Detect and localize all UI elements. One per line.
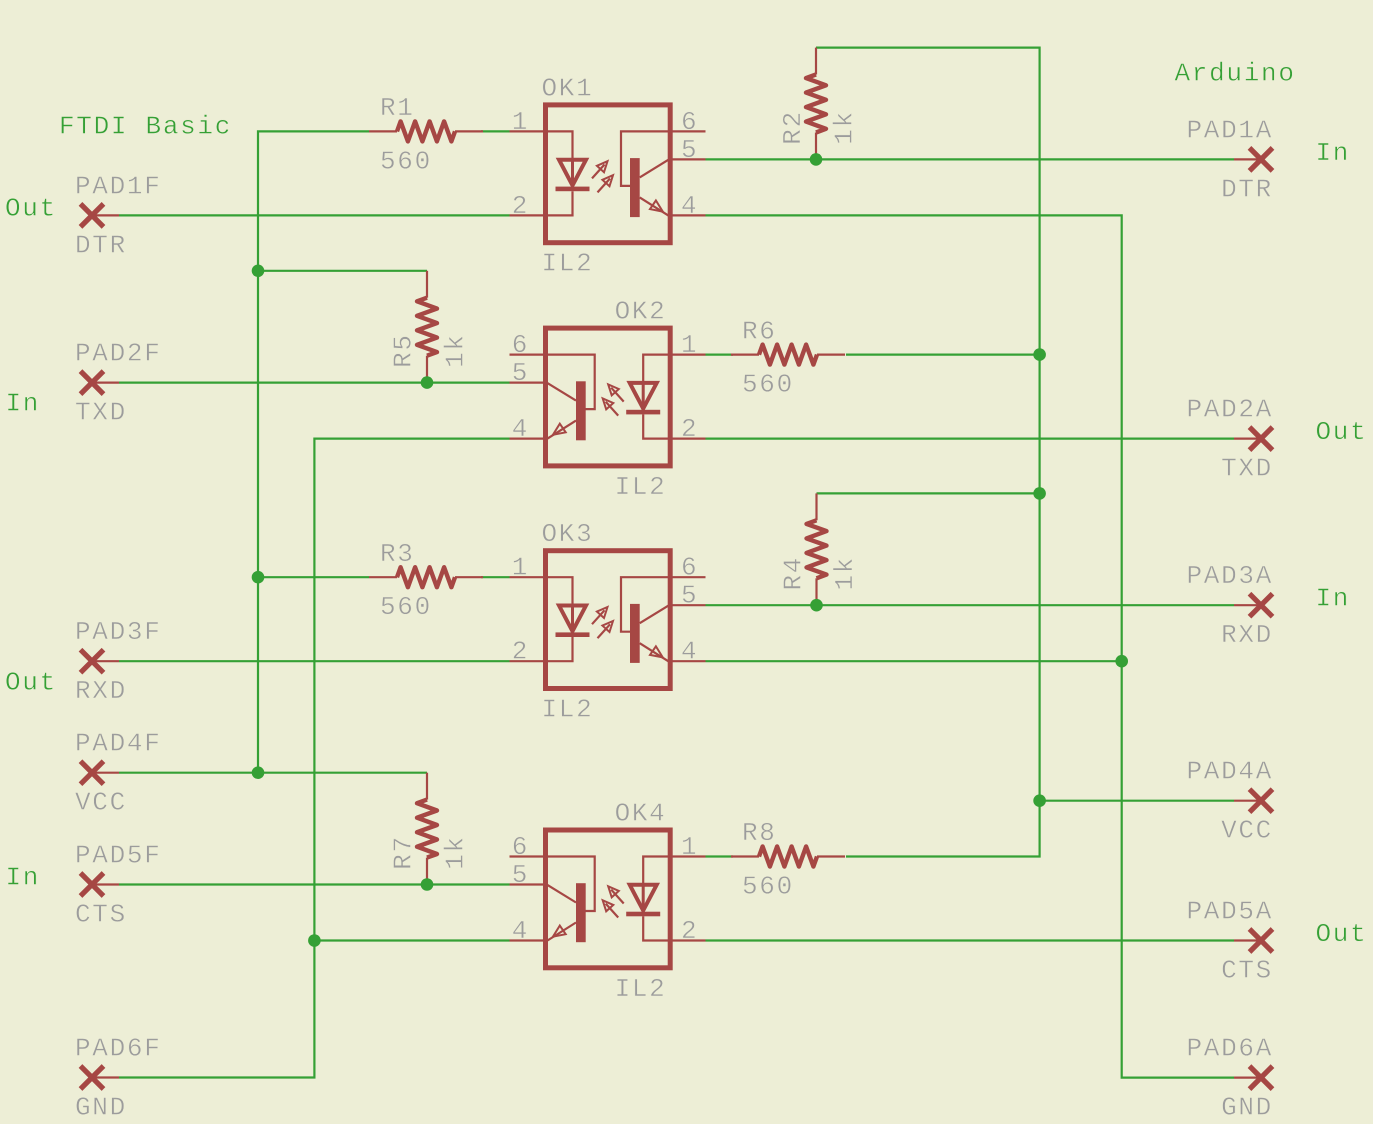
wire net DTR-A from OK1 pin 5 to PAD1A (706, 158, 1235, 160)
junction R4 / RXD-A (810, 599, 823, 612)
pin stub OK1 pin 2 (510, 214, 546, 216)
svg-text:IL2: IL2 (615, 472, 667, 502)
pad PAD2F (TXD) (81, 371, 120, 394)
svg-text:560: 560 (380, 146, 432, 176)
svg-text:TXD: TXD (1221, 454, 1273, 484)
wire net VCC-A branch to PAD4A (1040, 800, 1234, 802)
junction R5 / TXD-F (421, 376, 434, 389)
svg-text:1k: 1k (441, 835, 471, 870)
svg-text:In: In (6, 389, 41, 419)
pin stub OK4 pin 5 (510, 883, 546, 885)
pin stub OK1 pin 4 (671, 214, 706, 216)
resistor R3 (369, 567, 483, 587)
svg-text:TXD: TXD (75, 398, 127, 428)
optocoupler OK2 (IL2) (546, 328, 671, 466)
resistor R4 (807, 493, 827, 605)
svg-text:PAD1A: PAD1A (1186, 115, 1273, 145)
svg-text:DTR: DTR (1221, 174, 1273, 204)
pin stub OK3 pin 4 (671, 660, 706, 662)
svg-text:4: 4 (512, 916, 529, 946)
pad PAD1A (DTR) (1234, 148, 1273, 171)
svg-text:R3: R3 (380, 539, 415, 569)
pin stub OK1 pin 1 (510, 130, 546, 132)
svg-text:R6: R6 (742, 316, 777, 346)
svg-text:R7: R7 (389, 835, 419, 870)
svg-text:6: 6 (512, 832, 529, 862)
svg-text:5: 5 (512, 358, 529, 388)
pin stub OK4 pin 2 (671, 939, 706, 941)
pad PAD2A (TXD) (1234, 427, 1273, 450)
svg-text:2: 2 (512, 637, 529, 667)
pad PAD3A (RXD) (1234, 594, 1273, 617)
svg-text:OK1: OK1 (542, 73, 594, 103)
pad PAD4A (VCC) (1234, 789, 1273, 812)
resistor R6 (731, 345, 845, 365)
svg-text:VCC: VCC (1221, 816, 1273, 846)
pad PAD5A (CTS) (1234, 929, 1273, 952)
junction GND-F / OK4 pin 4 (308, 934, 321, 947)
svg-text:Out: Out (5, 193, 57, 223)
svg-text:5: 5 (681, 135, 698, 165)
svg-text:4: 4 (681, 637, 698, 667)
svg-text:5: 5 (512, 860, 529, 890)
svg-text:GND: GND (1221, 1093, 1273, 1123)
pin stub OK4 pin 6 (unconnected) (510, 855, 546, 857)
svg-text:OK2: OK2 (615, 297, 667, 327)
svg-text:2: 2 (681, 916, 698, 946)
wire net CTS-A from OK4 pin 2 to PAD5A (706, 939, 1235, 941)
wire net VCC-F branch to R5 top (258, 270, 427, 272)
svg-text:Out: Out (1316, 919, 1368, 949)
resistor R2 (806, 48, 826, 160)
wire net TXD-F from PAD2F to OK2 pin 5 (119, 382, 510, 384)
svg-text:PAD2A: PAD2A (1186, 395, 1273, 425)
svg-text:2: 2 (512, 191, 529, 221)
svg-text:GND: GND (75, 1093, 127, 1123)
pin stub OK1 pin 6 (unconnected) (671, 130, 706, 132)
svg-text:R1: R1 (380, 93, 415, 123)
svg-text:PAD1F: PAD1F (75, 171, 162, 201)
svg-text:5: 5 (681, 581, 698, 611)
junction VCC-A / PAD4A (1033, 794, 1046, 807)
svg-text:560: 560 (742, 872, 794, 902)
svg-text:Arduino: Arduino (1175, 59, 1296, 89)
wire net GND-A branch from OK3 pin 4 (706, 660, 1122, 662)
svg-text:1k: 1k (441, 333, 471, 368)
wire net VCC-F vertical trunk with corner to R1 row (258, 131, 369, 772)
pad PAD5F (CTS) (81, 873, 120, 896)
resistor R8 (731, 847, 845, 867)
svg-text:CTS: CTS (75, 900, 127, 930)
wire net VCC-A branch from R4 top (817, 492, 1040, 494)
wire net VCC-F from PAD4F to R7 top corner (119, 772, 427, 774)
svg-text:IL2: IL2 (542, 695, 594, 725)
pin stub OK3 pin 1 (510, 576, 546, 578)
svg-text:PAD5A: PAD5A (1186, 897, 1273, 927)
svg-text:PAD3A: PAD3A (1186, 561, 1273, 591)
svg-text:6: 6 (681, 107, 698, 137)
resistor R1 (369, 121, 483, 141)
pad PAD1F (DTR) (81, 204, 120, 227)
wire net OK4 pin 1 to R8 gap segment (706, 855, 734, 857)
wire net TXD-A from OK2 pin 2 to PAD2A (706, 438, 1235, 440)
svg-text:PAD3F: PAD3F (75, 617, 162, 647)
svg-text:4: 4 (512, 414, 529, 444)
wire net GND-A trunk from OK1 pin 4 down to PAD6A (706, 215, 1235, 1077)
pad PAD3F (RXD) (81, 650, 120, 673)
svg-text:1: 1 (681, 330, 698, 360)
svg-text:OK4: OK4 (615, 799, 667, 829)
junction VCC-F / PAD4F (252, 766, 265, 779)
svg-text:VCC: VCC (75, 788, 127, 818)
wire net RXD-A from OK3 pin 5 to PAD3A (706, 604, 1235, 606)
svg-text:DTR: DTR (75, 230, 127, 260)
optocoupler OK4 (IL2) (546, 830, 671, 968)
svg-text:FTDI Basic: FTDI Basic (59, 112, 232, 142)
svg-text:R4: R4 (779, 556, 809, 591)
svg-text:R2: R2 (778, 110, 808, 145)
wire net DTR-F from PAD1F to OK1 pin 2 (119, 214, 510, 216)
svg-text:1: 1 (681, 832, 698, 862)
svg-text:In: In (6, 863, 41, 893)
pin stub OK2 pin 2 (671, 438, 706, 440)
svg-text:PAD5F: PAD5F (75, 841, 162, 871)
svg-text:R8: R8 (742, 818, 777, 848)
pad PAD6F (GND) (81, 1066, 120, 1089)
svg-text:6: 6 (681, 553, 698, 583)
svg-text:1: 1 (512, 553, 529, 583)
wire net CTS-F from PAD5F to OK4 pin 5 (119, 883, 510, 885)
pad PAD4F (VCC) (81, 761, 120, 784)
pin stub OK4 pin 1 (671, 855, 706, 857)
resistor R5 (417, 271, 437, 383)
wire net VCC-A trunk from R2 top across and down to R8 output (816, 48, 1040, 857)
svg-text:IL2: IL2 (615, 974, 667, 1004)
svg-text:4: 4 (681, 191, 698, 221)
pin stub OK4 pin 4 (510, 939, 546, 941)
junction VCC-A / R4 (1033, 487, 1046, 500)
pin stub OK2 pin 6 (unconnected) (510, 354, 546, 356)
junction GND-A / OK3 pin 4 (1115, 655, 1128, 668)
pin stub OK2 pin 1 (671, 354, 706, 356)
svg-text:2: 2 (681, 414, 698, 444)
junction VCC-A / R6 (1033, 348, 1046, 361)
svg-text:Out: Out (5, 667, 57, 697)
svg-text:PAD6A: PAD6A (1186, 1034, 1273, 1064)
svg-text:RXD: RXD (1221, 620, 1273, 650)
svg-text:In: In (1316, 138, 1351, 168)
svg-text:OK3: OK3 (542, 519, 594, 549)
pin stub OK3 pin 5 (671, 604, 706, 606)
resistor R7 (417, 773, 437, 885)
pin stub OK3 pin 2 (510, 660, 546, 662)
wire net VCC-F branch to R3 (258, 576, 369, 578)
svg-text:PAD4F: PAD4F (75, 729, 162, 759)
optocoupler OK3 (IL2) (546, 551, 671, 689)
pin stub OK1 pin 5 (671, 158, 706, 160)
wire net GND-F trunk from OK2 pin 4 down to PAD6F (119, 439, 510, 1078)
svg-text:R5: R5 (389, 333, 419, 368)
svg-text:1: 1 (512, 107, 529, 137)
pin stub OK2 pin 5 (510, 382, 546, 384)
wire net R1 to OK1 pin 1 gap segment (481, 130, 510, 132)
wire net RXD-F from PAD3F to OK3 pin 2 (119, 660, 510, 662)
svg-text:6: 6 (512, 330, 529, 360)
svg-text:PAD2F: PAD2F (75, 339, 162, 369)
svg-text:560: 560 (380, 592, 432, 622)
svg-text:PAD6F: PAD6F (75, 1034, 162, 1064)
junction R7 / CTS-F (421, 878, 434, 891)
svg-text:1k: 1k (830, 110, 860, 145)
svg-text:In: In (1316, 584, 1351, 614)
pad PAD6A (GND) (1234, 1066, 1273, 1089)
wire net OK2 pin 1 to R6 gap segment (706, 354, 734, 356)
svg-text:1k: 1k (830, 556, 860, 591)
wire net GND-F branch to OK4 pin 4 (314, 939, 509, 941)
junction R2 / DTR-A (810, 153, 823, 166)
svg-text:560: 560 (742, 370, 794, 400)
wire net R3 to OK3 pin 1 gap segment (481, 576, 510, 578)
svg-text:CTS: CTS (1221, 956, 1273, 986)
svg-text:RXD: RXD (75, 676, 127, 706)
svg-text:Out: Out (1316, 417, 1368, 447)
junction VCC-F / R3 (252, 571, 265, 584)
pin stub OK3 pin 6 (unconnected) (671, 576, 706, 578)
junction VCC-F / R5 (252, 265, 265, 278)
pin stub OK2 pin 4 (510, 438, 546, 440)
svg-text:IL2: IL2 (542, 249, 594, 279)
wire net VCC-A branch from R6 output (846, 354, 1040, 356)
svg-text:PAD4A: PAD4A (1186, 757, 1273, 787)
optocoupler OK1 (IL2) (546, 105, 671, 243)
